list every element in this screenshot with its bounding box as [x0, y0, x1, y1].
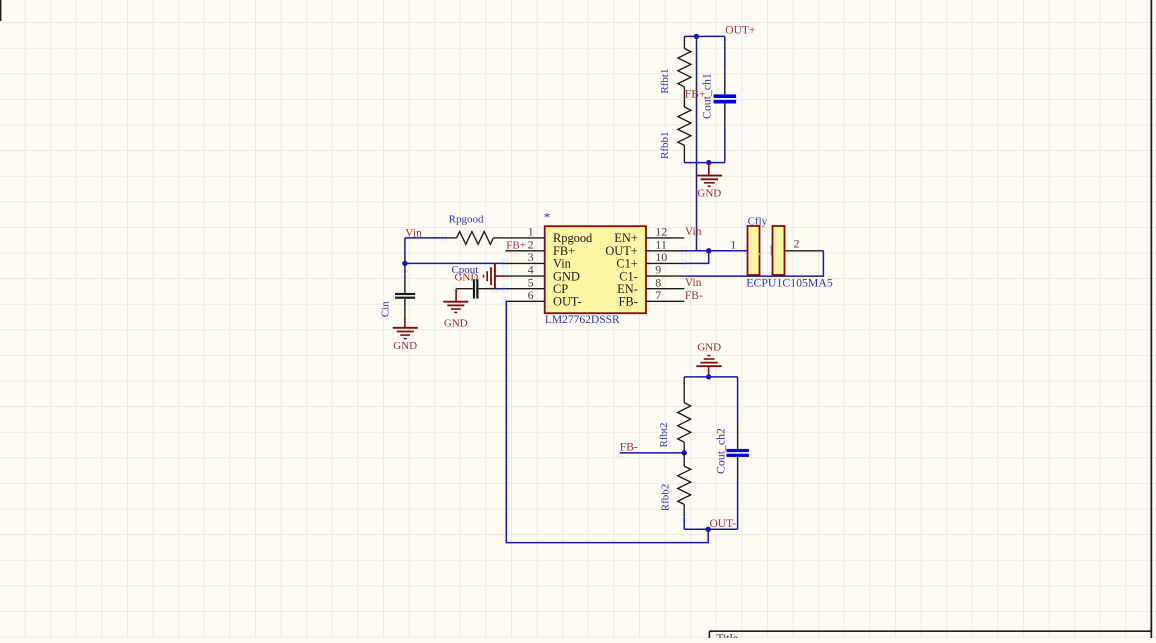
- pin 4 GND: [505, 263, 579, 284]
- pin 5 CP: [505, 275, 568, 296]
- svg-text:OUT-: OUT-: [710, 518, 737, 530]
- svg-text:OUT+: OUT+: [725, 25, 755, 37]
- wire C1- loop: [684, 251, 823, 276]
- svg-text:Cfly: Cfly: [748, 215, 768, 227]
- capacitor Cout_ch2: [726, 425, 749, 481]
- sheet border left sliver: [0, 0, 1, 21]
- pin 7 FB-: [619, 288, 685, 309]
- power port GND ch1: [697, 163, 722, 187]
- svg-text:FB-: FB-: [685, 290, 703, 302]
- node Vin junction: [402, 261, 407, 266]
- svg-text:GND: GND: [393, 340, 417, 352]
- svg-text:GND: GND: [454, 272, 478, 284]
- capacitor Cin: [395, 275, 415, 317]
- node ch1 ground junction: [706, 160, 711, 165]
- svg-text:*: *: [544, 210, 551, 225]
- wire pin 11 to Cfly pin 1: [684, 250, 747, 252]
- IC LM27762DSSR body: [545, 226, 646, 313]
- node ch2 top junction: [706, 374, 711, 379]
- svg-text:GND: GND: [444, 317, 468, 329]
- power port GND (Cpout): [443, 289, 468, 313]
- wire ch2 top rail: [684, 376, 737, 378]
- svg-text:ECPU1C105MA5: ECPU1C105MA5: [746, 275, 833, 289]
- title block: [709, 631, 1151, 643]
- svg-text:FB-: FB-: [619, 295, 638, 309]
- wire OUT+ top rail: [684, 35, 724, 37]
- wire ch2 bottom rail: [684, 528, 737, 530]
- svg-text:LM27762DSSR: LM27762DSSR: [545, 314, 620, 326]
- node OUT- junction: [706, 527, 711, 532]
- svg-text:Rfbb2: Rfbb2: [659, 484, 671, 512]
- wire Vin to pin 3: [405, 262, 506, 264]
- svg-text:Rfbt1: Rfbt1: [659, 69, 671, 94]
- svg-text:Cout_ch1: Cout_ch1: [700, 73, 714, 119]
- pin 3 Vin: [505, 250, 570, 271]
- wire to Cin: [404, 263, 406, 274]
- svg-text:7: 7: [655, 288, 661, 302]
- svg-text:6: 6: [528, 288, 534, 302]
- svg-text:1: 1: [730, 238, 736, 252]
- svg-text:1: 1: [528, 225, 534, 239]
- wire junction elbow to pin 10: [684, 251, 708, 264]
- svg-text:FB-: FB-: [620, 442, 638, 454]
- pin 9 C1-: [619, 263, 684, 284]
- wire Vin horizontal: [405, 237, 445, 239]
- capacitor Cout_ch1: [714, 71, 737, 128]
- wire Vin vertical: [404, 238, 406, 264]
- svg-text:2: 2: [794, 236, 800, 250]
- pin 10 C1+: [616, 250, 684, 271]
- node FB- junction: [682, 450, 687, 455]
- svg-text:EN+: EN+: [614, 231, 638, 245]
- resistor Rfbb2: [678, 453, 691, 517]
- power port GND (pin 4, rotated): [484, 264, 506, 289]
- resistor Rpgood: [445, 232, 506, 245]
- wire Cpout to pin 5: [495, 288, 506, 290]
- resistor Rfbb1: [678, 100, 691, 163]
- connection markers: [402, 32, 750, 521]
- svg-text:Title: Title: [717, 633, 738, 638]
- wire Cout_ch1 bottom: [724, 127, 726, 162]
- svg-text:Cout_ch2: Cout_ch2: [713, 428, 727, 474]
- sheet border right edge: [1151, 0, 1153, 638]
- power port GND (Cin): [393, 317, 418, 339]
- wire Cout_ch2 bottom: [737, 481, 739, 529]
- svg-text:Vin: Vin: [685, 226, 702, 238]
- wire OUT- route from pin 6: [506, 301, 708, 542]
- capacitor Cfly: [748, 226, 824, 275]
- resistor Rfbt1: [678, 36, 691, 99]
- node OUT+ junction: [694, 34, 699, 39]
- svg-text:Vin: Vin: [685, 277, 702, 289]
- pin 8 EN-: [617, 275, 684, 296]
- wire OUT+ riser to pin 11: [696, 36, 698, 250]
- svg-text:12: 12: [655, 225, 667, 239]
- svg-text:Cin: Cin: [380, 301, 392, 317]
- wire Rfbb2 to bottom rail: [683, 517, 685, 529]
- svg-text:FB+: FB+: [506, 240, 526, 252]
- pin 11 OUT+: [605, 237, 684, 258]
- svg-text:Rpgood: Rpgood: [449, 213, 484, 225]
- capacitor Cpout: [456, 279, 495, 298]
- pin 1 Rpgood: [505, 225, 593, 246]
- svg-text:Rfbb1: Rfbb1: [659, 131, 671, 159]
- node pin11/C1+ junction: [706, 248, 711, 253]
- svg-text:GND: GND: [697, 342, 721, 354]
- svg-text:Rpgood: Rpgood: [553, 231, 593, 245]
- wire ch1 ground rail: [684, 162, 724, 164]
- svg-text:GND: GND: [697, 188, 721, 200]
- wire Cout_ch1 top: [724, 36, 726, 70]
- pin 6 OUT-: [505, 288, 581, 309]
- svg-text:Rfbt2: Rfbt2: [658, 422, 670, 447]
- resistor Rfbt2: [678, 377, 691, 453]
- wire Cout_ch2 top: [737, 377, 739, 425]
- svg-text:OUT-: OUT-: [553, 295, 581, 309]
- pin 12 EN+: [614, 225, 684, 246]
- wire FB-: [620, 452, 685, 454]
- pin 2 FB+: [505, 237, 575, 258]
